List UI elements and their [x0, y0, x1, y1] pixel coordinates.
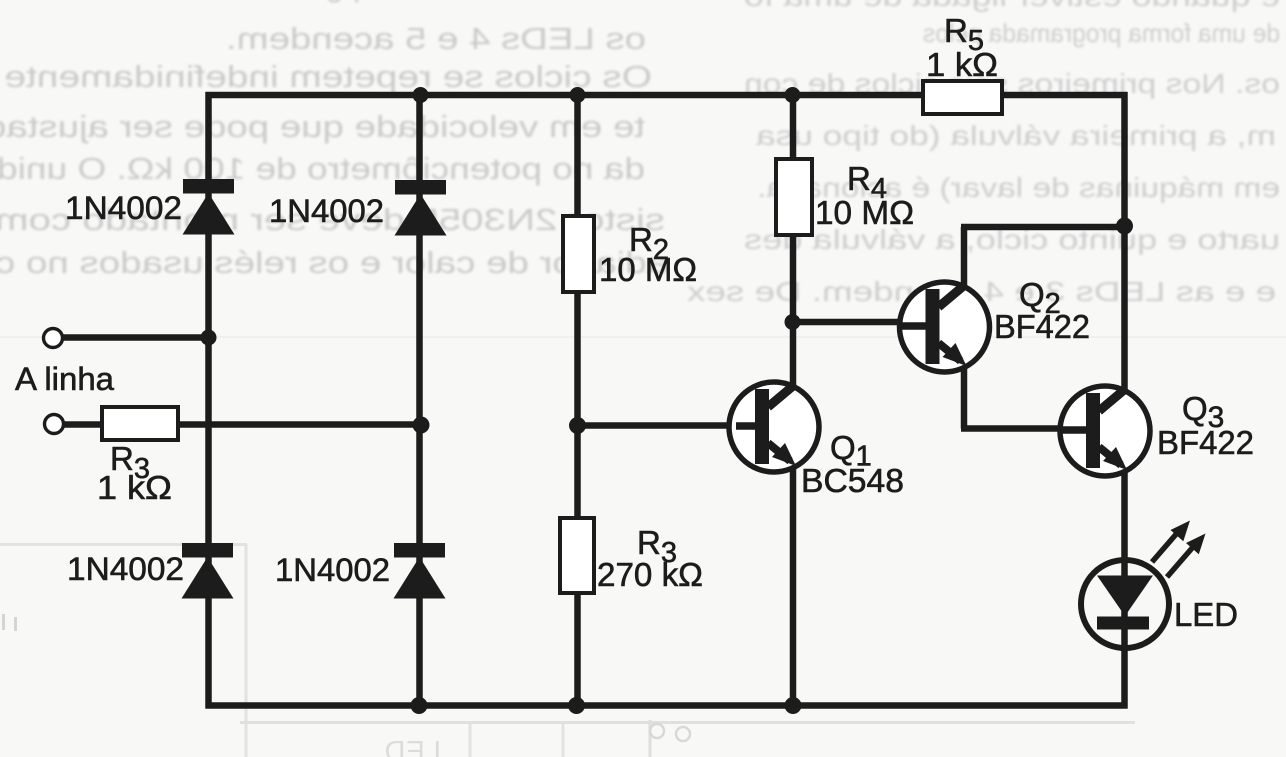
svg-text:A linha: A linha — [15, 361, 114, 397]
svg-text:da no potenciômetro de 100 kΩ.: da no potenciômetro de 100 kΩ. O unid — [0, 151, 645, 186]
svg-text:m, a primeira válvula (do tipo: m, a primeira válvula (do tipo usa — [755, 120, 1276, 151]
svg-text:LED: LED — [385, 736, 441, 757]
svg-text:1N4002: 1N4002 — [275, 552, 390, 588]
svg-text:1 kΩ: 1 kΩ — [926, 46, 998, 83]
svg-text:BF422: BF422 — [1157, 424, 1254, 461]
svg-text:270 kΩ: 270 kΩ — [597, 556, 703, 593]
svg-text:1N4002: 1N4002 — [65, 190, 182, 226]
svg-text:BC548: BC548 — [801, 462, 904, 499]
svg-text:te em velocidade que pode ser: te em velocidade que pode ser ajustad — [0, 109, 645, 144]
svg-text:LED: LED — [1174, 596, 1238, 633]
svg-text:1N4002: 1N4002 — [269, 193, 384, 229]
svg-text:BF422: BF422 — [994, 308, 1090, 345]
svg-text:10 MΩ: 10 MΩ — [815, 194, 914, 231]
svg-text:1 kΩ: 1 kΩ — [97, 469, 172, 506]
svg-text:10 MΩ: 10 MΩ — [599, 251, 697, 288]
svg-text:pg: pg — [326, 0, 360, 3]
svg-text:1N4002: 1N4002 — [67, 551, 184, 587]
svg-text:e quando estiver ligada de uma: e quando estiver ligada de uma fo — [744, 0, 1280, 12]
svg-text:os LEDs 4 e 5 acendem.: os LEDs 4 e 5 acendem. — [226, 21, 646, 56]
svg-text:Os ciclos se repetem indefinid: Os ciclos se repetem indefinidamente a — [0, 59, 652, 94]
